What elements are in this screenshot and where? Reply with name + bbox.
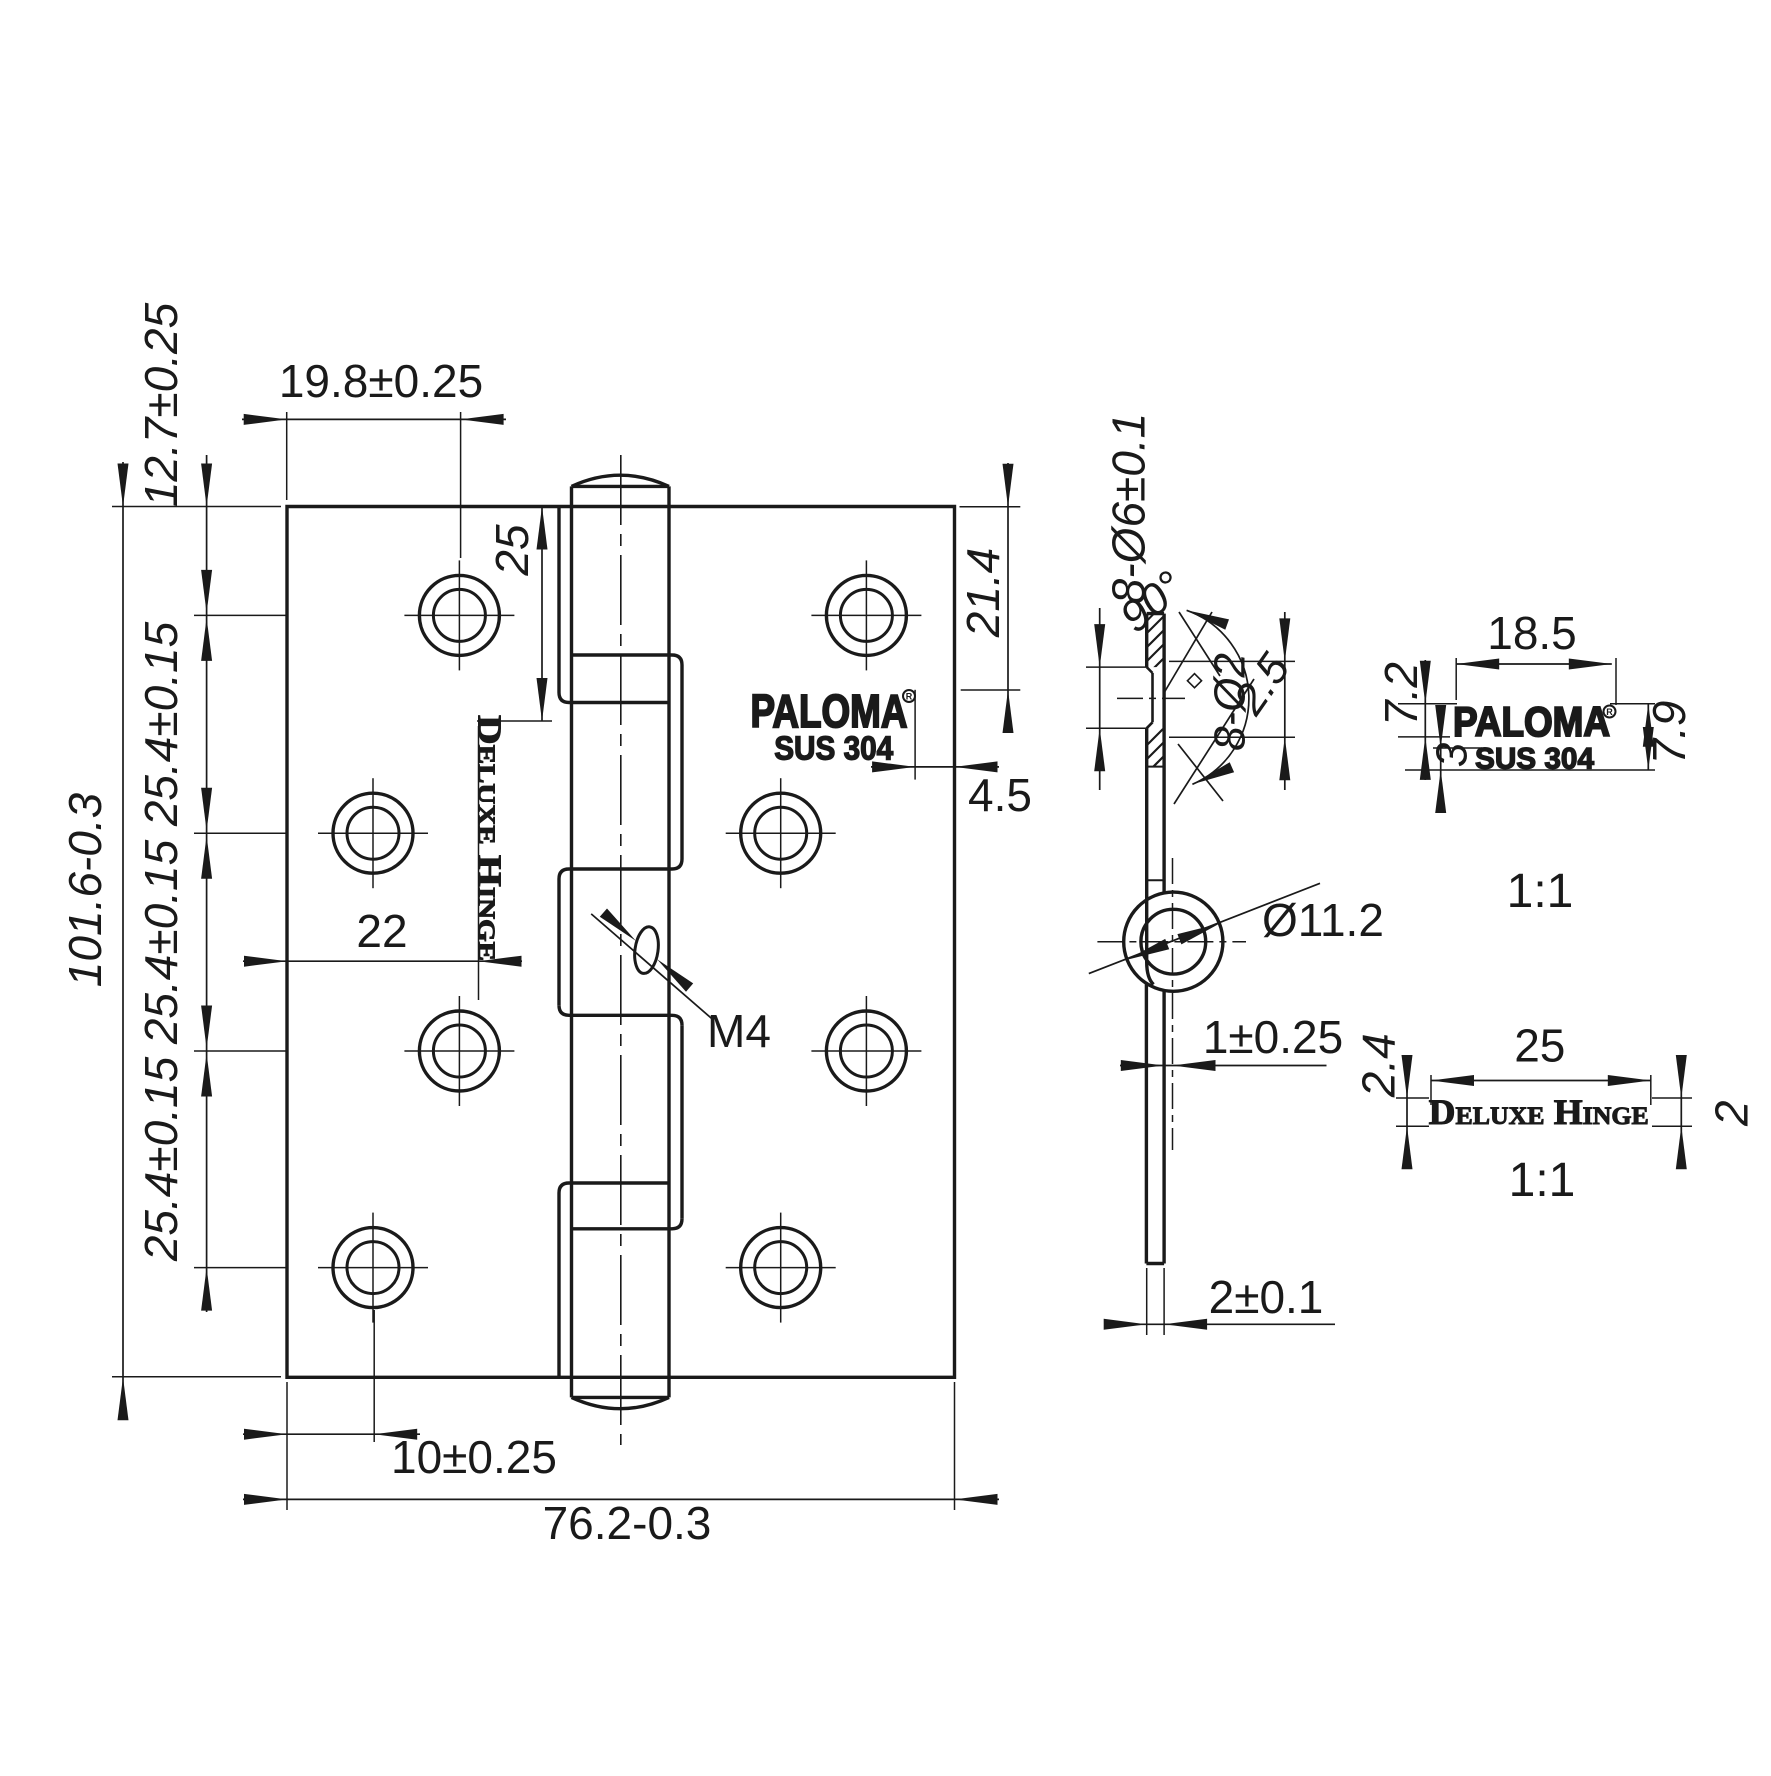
svg-text:Deluxe Hinge: Deluxe Hinge: [1429, 1092, 1649, 1132]
svg-text:1±0.25: 1±0.25: [1203, 1011, 1343, 1063]
svg-text:7.9: 7.9: [1643, 701, 1695, 765]
svg-text:10±0.25: 10±0.25: [391, 1431, 557, 1483]
svg-text:25: 25: [486, 524, 538, 577]
svg-text:3: 3: [1428, 742, 1477, 767]
svg-text:2: 2: [1705, 1100, 1757, 1127]
svg-text:21.4: 21.4: [957, 548, 1009, 639]
svg-text:4.5: 4.5: [968, 769, 1032, 821]
svg-text:Ø11.2: Ø11.2: [1262, 894, 1384, 946]
svg-text:1:1: 1:1: [1507, 865, 1574, 918]
svg-text:2.4: 2.4: [1353, 1033, 1405, 1098]
svg-text:101.6-0.3: 101.6-0.3: [59, 792, 111, 987]
svg-text:19.8±0.25: 19.8±0.25: [279, 355, 483, 407]
svg-text:76.2-0.3: 76.2-0.3: [543, 1497, 712, 1549]
svg-text:1:1: 1:1: [1509, 1154, 1576, 1207]
svg-text:Deluxe Hinge: Deluxe Hinge: [471, 715, 508, 961]
svg-text:22: 22: [356, 905, 407, 957]
svg-text:R: R: [1606, 707, 1613, 717]
svg-text:25: 25: [1514, 1020, 1565, 1072]
svg-text:2±0.1: 2±0.1: [1209, 1271, 1324, 1323]
svg-text:25.4±0.15: 25.4±0.15: [135, 1056, 187, 1262]
svg-text:PALOMA: PALOMA: [1453, 698, 1610, 745]
svg-text:R: R: [906, 692, 913, 702]
svg-text:12.7±0.25: 12.7±0.25: [135, 302, 187, 507]
svg-text:25.4±0.15: 25.4±0.15: [135, 621, 187, 827]
svg-text:18.5: 18.5: [1487, 607, 1577, 659]
svg-text:25.4±0.15: 25.4±0.15: [135, 839, 187, 1045]
svg-text:SUS 304: SUS 304: [774, 730, 894, 767]
svg-text:M4: M4: [707, 1005, 771, 1057]
svg-text:7.2: 7.2: [1375, 662, 1427, 726]
